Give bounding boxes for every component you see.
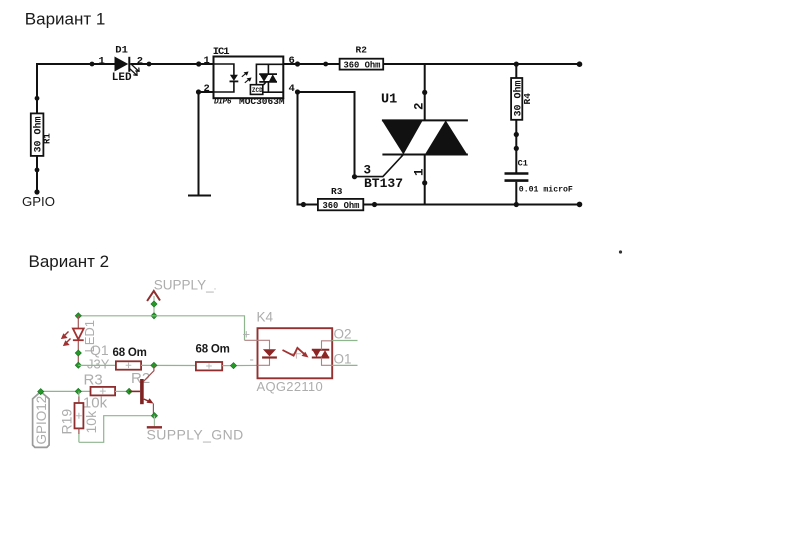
wire to collector node (141, 364, 196, 366)
wire IC1 pin2 to ground (198, 92, 200, 196)
D1 light emission arrows (130, 65, 140, 76)
node junction dot IC1 pin4 (295, 89, 300, 94)
wire left vertical GPIO to top (36, 63, 38, 113)
wire second resistor to K4 minus pin (222, 364, 257, 366)
IC1 internal LED (230, 75, 239, 82)
node end dot bottom right (577, 202, 583, 208)
wire triac gate (355, 155, 404, 177)
wire R3 to base node (115, 390, 129, 392)
resistor R2 360 Ohm (340, 45, 384, 71)
node junction diamond collector node (151, 362, 157, 368)
svg-text:AQG22110: AQG22110 (257, 379, 323, 394)
node junction dot above R1 (35, 96, 40, 101)
IC1 internal light arrows (242, 72, 251, 83)
wire triac MT1 down to bottom rail (424, 155, 426, 205)
node junction diamond emitter node (151, 413, 157, 419)
wire R2 to right end (383, 63, 579, 65)
resistor R1 30 Ohm (31, 113, 53, 155)
wire to supply ground (153, 416, 155, 427)
svg-text:Вариант 1: Вариант 1 (25, 9, 106, 28)
svg-text:U1: U1 (381, 93, 397, 108)
IC1 internal output wiring (256, 64, 283, 92)
node junction dot rail left (301, 202, 306, 207)
node junction diamond supply on rail (151, 313, 157, 319)
wire IC1 pin4 to gate branch (298, 92, 355, 177)
wire top supply rail (78, 316, 244, 341)
svg-text:O1: O1 (334, 352, 352, 367)
svg-text:-: - (250, 352, 254, 367)
node junction dot IC1 pin2 (196, 89, 201, 94)
svg-text:0.01 microF: 0.01 microF (519, 185, 573, 195)
node junction diamond supply upper (151, 301, 157, 307)
svg-text:2: 2 (204, 83, 210, 95)
node GPIO net end dot (34, 189, 39, 194)
wire supply stub (153, 296, 155, 316)
wire R4 to C1 (515, 120, 517, 173)
node junction dot below R1 (35, 168, 40, 173)
node junction dot between R4 and C1 lower (514, 146, 519, 151)
node junction diamond GPIO12 tip (38, 388, 44, 394)
node junction dot before R2 (323, 62, 328, 67)
svg-text:MOC3063M: MOC3063M (239, 96, 285, 107)
wire R1 bottom lead (36, 156, 38, 192)
wire top-left horizontal (37, 63, 115, 65)
node junction dot below C1 (514, 202, 519, 207)
svg-text:10k: 10k (83, 395, 108, 412)
svg-text:O2: O2 (334, 327, 352, 342)
LED D1 (112, 45, 132, 84)
wire LED1 vertical leads (77, 316, 79, 366)
svg-text:6: 6 (289, 55, 295, 67)
resistor 68 Om first (113, 347, 147, 370)
opto-coupler IC1 MOC3063M body (213, 46, 285, 107)
wire bottom rail (298, 204, 580, 206)
resistor R3 360 Ohm (318, 186, 363, 211)
supply net arrow symbol (147, 291, 160, 301)
relay K4 AQG22110 body (257, 310, 333, 395)
IC1 internal triac (259, 74, 277, 82)
node GPIO12 flag (33, 392, 50, 448)
svg-text:4: 4 (289, 83, 295, 95)
node junction dot between R4 and C1 upper (514, 132, 519, 137)
IC1 internal ZCD block (250, 85, 263, 95)
node junction diamond before K4 (230, 362, 236, 368)
resistor R19 10k vertical (59, 391, 100, 442)
node end dot top right (577, 61, 583, 67)
node junction diamond above LED1 (75, 313, 81, 319)
resistor R4 30 Ohm (511, 78, 533, 120)
svg-text:IC1: IC1 (213, 46, 230, 58)
svg-text:+: + (243, 327, 251, 342)
wire IC1 pin2 stub (199, 91, 214, 93)
svg-text:1: 1 (99, 55, 105, 67)
svg-text:R3: R3 (331, 186, 343, 197)
svg-text:360 Ohm: 360 Ohm (344, 60, 381, 70)
svg-text:BT137: BT137 (364, 176, 403, 191)
triac U1 BT137 symbol (382, 120, 468, 154)
svg-text:SUPPLY_.: SUPPLY_. (154, 278, 217, 293)
wire C1 bottom lead (515, 182, 517, 205)
node junction diamond base node (126, 388, 132, 394)
K4 internal triac (312, 350, 330, 358)
svg-text:Вариант 2: Вариант 2 (29, 252, 110, 271)
svg-text:R4: R4 (522, 93, 533, 105)
svg-text:J3Y: J3Y (87, 357, 110, 372)
svg-text:360 Ohm: 360 Ohm (323, 201, 360, 211)
K4 internal light arrow (283, 348, 309, 359)
node junction dot triac pin1 (422, 180, 427, 185)
svg-text:GPIO12: GPIO12 (34, 396, 49, 445)
node junction dot (90, 62, 95, 67)
svg-text:K4: K4 (257, 310, 274, 325)
node junction dot R4 top (514, 62, 519, 67)
svg-text:R2: R2 (356, 45, 368, 56)
node junction diamond R19 top (75, 388, 81, 394)
svg-text:LED: LED (112, 72, 132, 84)
svg-text:C1: C1 (518, 158, 528, 168)
wire GPIO12 to R3 (41, 390, 91, 392)
svg-text:2: 2 (413, 102, 427, 110)
ground symbol SUPPLY_GND (147, 426, 162, 428)
ground symbol (188, 195, 211, 197)
svg-text:SUPPLY_GND: SUPPLY_GND (147, 427, 244, 443)
transistor Q2 NPN (129, 365, 154, 415)
svg-text:DIP6: DIP6 (214, 98, 232, 106)
wire O2 output (332, 340, 357, 342)
wire O1 output (332, 364, 357, 366)
K4 internal input wiring (245, 340, 270, 365)
node junction dot IC1 pin6 (295, 61, 300, 66)
node junction diamond LED1 net row (75, 362, 81, 368)
capacitor C1 (505, 158, 573, 194)
IC1 internal LED input wiring (214, 64, 234, 92)
resistor R3 10k (83, 372, 115, 412)
svg-text:D1: D1 (115, 45, 128, 57)
svg-text:GPIO: GPIO (22, 194, 55, 209)
LED D LED1 (73, 329, 84, 341)
svg-text:R3: R3 (84, 372, 103, 389)
svg-text:2: 2 (137, 55, 143, 67)
wire D1 to IC1 pin1 (130, 63, 213, 65)
node junction dot gate (352, 174, 357, 179)
wire R19 bottom to emitter node (79, 416, 154, 443)
svg-text:R1: R1 (43, 133, 53, 144)
node junction diamond LED1 cathode (75, 350, 81, 356)
wire branch down to triac MT2 (424, 64, 426, 120)
node junction dot triac pin2 (422, 90, 427, 95)
svg-text:ZCD: ZCD (252, 87, 263, 94)
wire IC1 pin6 to R2 (283, 63, 339, 65)
svg-text:68 Om: 68 Om (113, 347, 147, 359)
wire LED1 to resistor 68 Om first (78, 364, 116, 366)
svg-text:10k: 10k (83, 410, 99, 434)
wire R4 top lead (515, 64, 517, 78)
node junction dot after D1 (147, 62, 152, 67)
K4 internal LED (262, 349, 277, 357)
LED1 light emission arrows (62, 332, 71, 346)
stray dot mark (619, 250, 622, 253)
svg-text:1: 1 (204, 55, 210, 67)
node junction dot IC1 pin1 (196, 61, 201, 66)
resistor 68 Om second (196, 343, 230, 370)
wire IC1 pin4 down to bottom rail (298, 92, 304, 205)
K4 internal output wiring (322, 341, 333, 366)
svg-text:R19: R19 (59, 409, 75, 435)
node junction dot after R3 (372, 202, 377, 207)
svg-text:68 Om: 68 Om (196, 343, 230, 355)
